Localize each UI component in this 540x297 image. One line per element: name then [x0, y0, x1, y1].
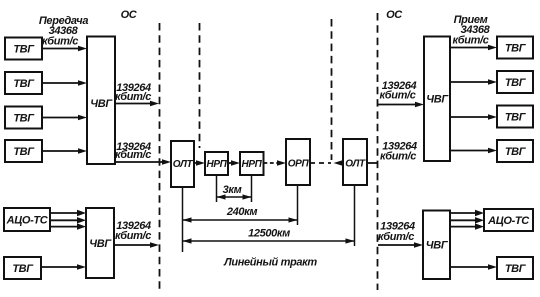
svg-text:ОС: ОС	[386, 9, 403, 21]
dimension arrow 12500km left	[183, 238, 192, 243]
dashed station line OS left 2	[199, 23, 201, 148]
block ChVG right top	[424, 37, 450, 162]
wire ChVG right to TVG R4	[450, 150, 493, 152]
wire ACO-TS to ChVG 2	[50, 219, 82, 221]
arrowhead TVG R1	[488, 45, 497, 51]
arrowhead TVG R2	[488, 79, 497, 85]
dimension line 240 km	[183, 219, 298, 221]
svg-text:ТВГ: ТВГ	[505, 112, 527, 124]
arrowhead ACO-TS 2	[77, 217, 86, 223]
wire TVG L4 to ChVG	[42, 150, 83, 152]
block ORP	[286, 139, 310, 185]
block NRP2	[240, 152, 264, 175]
block TVG L3	[5, 107, 42, 129]
wire ChVG top output to OS line	[115, 103, 155, 105]
svg-text:ОРП: ОРП	[288, 159, 310, 170]
wire ChVG right bottom to TVG R5	[450, 266, 493, 268]
svg-text:кбит/с: кбит/с	[42, 36, 78, 48]
block NRP1	[205, 152, 228, 175]
dimension arrow 3km right	[243, 194, 252, 199]
block ChVG right bottom	[423, 211, 450, 280]
block TVG L5	[4, 257, 41, 279]
svg-text:НРП: НРП	[241, 159, 262, 170]
arrowhead TVG L1	[78, 46, 87, 52]
svg-text:ТВГ: ТВГ	[13, 44, 35, 56]
arrowhead ACO-TS right 3	[475, 223, 484, 229]
block TVG R3	[497, 106, 533, 128]
dimension line 3 km	[217, 196, 252, 198]
dimension arrow 12500km right	[346, 238, 355, 243]
svg-text:ТВГ: ТВГ	[13, 146, 35, 158]
block ACO-TS right	[484, 209, 533, 231]
svg-text:АЦО-ТС: АЦО-ТС	[6, 215, 49, 227]
label 139264 bottom-right	[378, 221, 415, 244]
svg-text:НРП: НРП	[206, 159, 227, 170]
wire OLT2 to OS line	[367, 162, 378, 164]
svg-text:ТВГ: ТВГ	[13, 78, 35, 90]
svg-text:ТВГ: ТВГ	[13, 113, 35, 125]
arrowhead ACO-TS 3	[77, 223, 86, 229]
svg-text:кбит/с: кбит/с	[378, 231, 414, 243]
block ChVG left top	[87, 37, 115, 165]
svg-text:кбит/с: кбит/с	[115, 91, 151, 103]
wire NRP2 to ORP dashed	[264, 162, 279, 164]
block TVG R1	[497, 37, 533, 59]
svg-text:12500км: 12500км	[248, 228, 290, 240]
svg-text:240км: 240км	[226, 206, 258, 218]
svg-text:кбит/с: кбит/с	[115, 230, 151, 242]
wire ChVG right bottom to ACO-TS 2	[450, 219, 480, 221]
label Peredacha 34368 kbit/s	[39, 15, 88, 48]
dimension arrow 3km left	[217, 194, 226, 199]
block ACO-TS left	[4, 208, 50, 231]
block ChVG left bottom	[86, 208, 114, 278]
label 139264 mid-left	[115, 141, 151, 161]
svg-text:ЧВГ: ЧВГ	[89, 238, 112, 250]
label 139264 bottom-left	[115, 220, 151, 242]
block TVG R5	[497, 257, 533, 279]
svg-text:кбит/с: кбит/с	[115, 149, 151, 161]
arrowhead into ChVG right top	[415, 102, 424, 108]
arrowhead ACO-TS right 1	[475, 210, 484, 216]
svg-text:кбит/с: кбит/с	[452, 35, 488, 47]
dashed station line OS right 1	[331, 19, 333, 160]
svg-text:ТВГ: ТВГ	[505, 146, 527, 158]
arrowhead ACO-TS 1	[77, 210, 86, 216]
block TVG L4	[5, 140, 42, 162]
wire ChVG right to TVG R2	[450, 81, 493, 83]
block TVG R2	[497, 71, 533, 93]
wire OLT1 to NRP1	[194, 162, 201, 164]
label 139264 mid-right	[380, 141, 417, 163]
wire ChVG right bottom to ACO-TS 3	[450, 226, 480, 228]
wire TVG L1 to ChVG	[42, 48, 83, 50]
label Priem 34368 kbit/s	[452, 14, 490, 47]
drop line from OLT1	[182, 187, 184, 252]
block TVG L2	[5, 72, 42, 94]
svg-text:3км: 3км	[223, 184, 242, 196]
svg-text:ОЛТ: ОЛТ	[345, 159, 366, 170]
arrowhead ChVG bottom output	[150, 242, 159, 248]
arrowhead into OLT2 pointing left	[334, 160, 343, 166]
wire ChVG right to TVG R1	[450, 47, 493, 49]
svg-text:ЧВГ: ЧВГ	[426, 240, 449, 252]
svg-text:ОЛТ: ОЛТ	[173, 159, 194, 170]
svg-text:ТВГ: ТВГ	[505, 77, 527, 89]
arrowhead into NRP1	[196, 160, 205, 166]
arrowhead into ChVG right bottom	[414, 242, 423, 248]
block TVG L1	[5, 38, 42, 60]
drop line from NRP2	[251, 175, 253, 202]
svg-text:Линейный тракт: Линейный тракт	[223, 257, 317, 269]
label 139264 top-left	[115, 82, 151, 103]
dashed station line OS left 1	[159, 23, 161, 290]
svg-text:кбит/с: кбит/с	[380, 151, 416, 163]
wire ACO-TS to ChVG 3	[50, 226, 82, 228]
dimension arrow 240km right	[289, 217, 298, 222]
svg-text:АЦО-ТС: АЦО-ТС	[487, 215, 530, 227]
wire OS to ChVG right top input	[378, 104, 421, 106]
dimension line 12500 km	[183, 240, 355, 242]
arrowhead TVG R5	[488, 264, 497, 270]
wire ACO-TS to ChVG 1	[50, 212, 82, 214]
drop line from OLT2	[354, 185, 356, 246]
arrowhead TVG L4	[78, 148, 87, 154]
wire OS to ChVG right bottom input	[378, 244, 419, 246]
block OLT2	[343, 139, 367, 185]
arrowhead TVG R3	[488, 114, 497, 120]
dashed station line OS right 2	[377, 13, 379, 290]
svg-text:ЧВГ: ЧВГ	[90, 98, 113, 110]
arrowhead ChVG top output	[150, 101, 159, 107]
wire ChVG bottom output to OS line	[114, 244, 155, 246]
arrowhead ACO-TS right 2	[475, 217, 484, 223]
arrowhead into OLT1	[162, 159, 171, 165]
arrowhead TVG L2	[78, 80, 87, 86]
block OLT1	[171, 141, 194, 187]
drop line from NRP1	[216, 175, 218, 202]
wire TVG L5 to ChVG bottom	[41, 266, 82, 268]
arrowhead TVG L5	[77, 264, 86, 270]
arrowhead TVG L3	[78, 115, 87, 121]
svg-text:ТВГ: ТВГ	[12, 263, 34, 275]
wire arrow stem into OLT2	[339, 162, 343, 164]
block TVG R4	[497, 140, 533, 162]
arrowhead into NRP2	[231, 160, 240, 166]
arrowhead into ORP	[277, 160, 286, 166]
svg-text:кбит/с: кбит/с	[379, 90, 415, 102]
wire ChVG second output to OLT1	[115, 161, 167, 163]
wire NRP1 to NRP2	[228, 162, 236, 164]
wire TVG L2 to ChVG	[42, 82, 83, 84]
drop line from ORP	[297, 185, 299, 225]
svg-text:ТВГ: ТВГ	[505, 43, 527, 55]
wire ChVG right bottom to ACO-TS 1	[450, 212, 480, 214]
label 139264 top-right	[379, 80, 416, 102]
wire TVG L3 to ChVG	[42, 117, 83, 119]
wire ChVG right to TVG R3	[450, 116, 493, 118]
svg-text:ОС: ОС	[121, 9, 138, 21]
svg-text:ЧВГ: ЧВГ	[426, 94, 449, 106]
wire ORP to OLT2 dashed	[310, 162, 331, 164]
arrowhead TVG R4	[488, 148, 497, 154]
svg-text:ТВГ: ТВГ	[505, 263, 527, 275]
dimension arrow 240km left	[183, 217, 192, 222]
